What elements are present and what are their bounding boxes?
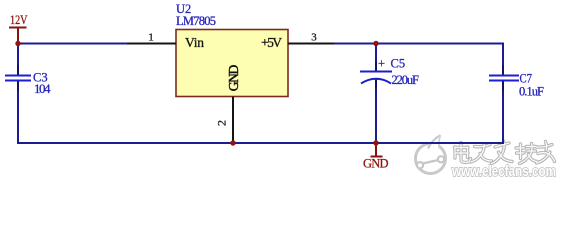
svg-text:104: 104 [34, 81, 51, 96]
capacitor C5 (polarized electrolytic) [360, 57, 419, 90]
svg-text:12V: 12V [10, 12, 28, 27]
svg-text:www.elecfans.com: www.elecfans.com [451, 164, 556, 180]
wire pin3 to right edge [333, 43, 504, 45]
svg-text:220uF: 220uF [392, 73, 420, 87]
pin 1 [127, 32, 176, 44]
wire C5 top (node to C5 plate) [375, 43, 377, 71]
capacitor C7 [489, 65, 544, 99]
wire right vertical upper (to C7 top plate) [502, 43, 504, 76]
wire left vertical upper (node to C3 top plate) [17, 43, 19, 76]
junction node GND at C5 [373, 140, 378, 145]
svg-text:2: 2 [214, 120, 228, 126]
svg-text:GND: GND [226, 65, 241, 92]
pin 3 [288, 32, 334, 44]
svg-text:+5V: +5V [261, 35, 282, 50]
wire top from 12V node to pin1 [18, 43, 128, 45]
svg-text:+: + [378, 57, 385, 71]
regulator U2 body LM7805 [176, 2, 288, 97]
power port GND [363, 143, 389, 171]
wire right vertical lower (C7 bottom to ground bus) [502, 81, 504, 144]
capacitor C3 [5, 65, 51, 96]
pin 2 [214, 97, 233, 144]
wire bottom ground bus [17, 142, 504, 144]
junction node GND at pin2 [230, 140, 235, 145]
watermark chinese characters (stylized) [455, 141, 555, 164]
svg-text:C7: C7 [520, 72, 533, 86]
svg-text:1: 1 [148, 32, 154, 44]
wire left vertical lower (C3 bottom to ground bus) [17, 81, 19, 144]
svg-text:3: 3 [311, 32, 317, 44]
junction node +5V at C5 [373, 41, 378, 46]
watermark url www.elecfans.com [451, 164, 556, 180]
svg-text:C5: C5 [391, 57, 406, 71]
watermark logo circle [416, 135, 446, 174]
wire C5 bottom (C5 arc to ground bus) [375, 79, 377, 143]
svg-text:0.1uF: 0.1uF [519, 85, 544, 99]
power port 12V [9, 12, 28, 43]
svg-text:GND: GND [363, 157, 389, 171]
svg-text:LM7805: LM7805 [176, 14, 216, 28]
svg-text:Vin: Vin [185, 35, 204, 50]
junction node 12V [15, 41, 20, 46]
